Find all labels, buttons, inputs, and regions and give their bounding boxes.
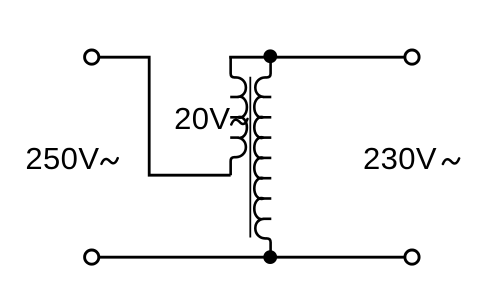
- svg-text:230V: 230V: [363, 141, 437, 176]
- svg-text:250V: 250V: [25, 141, 99, 176]
- svg-text:20V: 20V: [174, 101, 230, 136]
